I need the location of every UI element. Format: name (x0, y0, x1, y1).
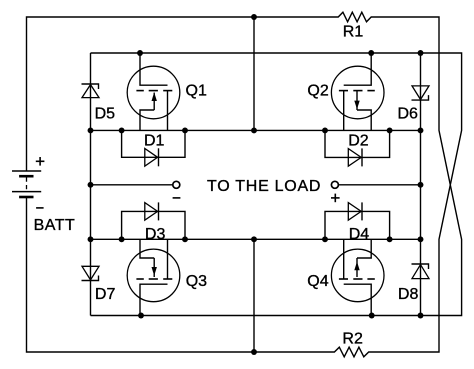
svg-text:D3: D3 (145, 226, 166, 243)
svg-text:Q4: Q4 (307, 273, 328, 290)
svg-text:D8: D8 (398, 286, 419, 303)
svg-text:D2: D2 (348, 132, 369, 149)
svg-text:TO THE LOAD: TO THE LOAD (207, 178, 321, 195)
svg-text:D4: D4 (349, 226, 370, 243)
svg-text:D5: D5 (95, 106, 116, 123)
svg-text:D6: D6 (398, 105, 419, 122)
svg-text:Q2: Q2 (307, 83, 328, 100)
svg-text:D1: D1 (144, 132, 165, 149)
svg-text:Q3: Q3 (186, 273, 207, 290)
svg-text:BATT: BATT (34, 217, 76, 234)
svg-text:R2: R2 (342, 331, 363, 348)
svg-text:Q1: Q1 (186, 83, 207, 100)
svg-text:D7: D7 (95, 286, 116, 303)
svg-text:R1: R1 (343, 24, 364, 41)
